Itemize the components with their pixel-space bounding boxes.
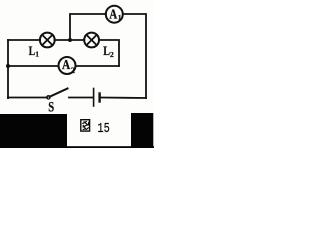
switch S pivot <box>47 96 50 99</box>
lamp L1 <box>40 33 55 48</box>
black band bottom strip <box>0 146 154 148</box>
battery short plate <box>98 94 100 102</box>
svg-text:L: L <box>29 44 36 58</box>
wire left vertical <box>7 40 9 98</box>
svg-text:1: 1 <box>118 13 122 22</box>
label A of ammeter A2 <box>62 57 75 75</box>
battery long plate <box>93 89 95 107</box>
label L1 <box>29 44 40 58</box>
label A of ammeter A1 <box>109 7 121 22</box>
wire middle row left to L1 <box>8 39 40 41</box>
svg-text:2: 2 <box>110 50 114 59</box>
wire junction to L2 <box>70 39 84 41</box>
wire switch to battery <box>69 97 93 99</box>
ammeter A1 <box>106 6 123 23</box>
svg-text:A: A <box>62 57 70 72</box>
wire L1 to junction <box>55 39 70 41</box>
wire battery to right vertical <box>101 97 146 100</box>
svg-text:1: 1 <box>35 49 39 58</box>
black band left block <box>0 114 67 148</box>
lamp L2 <box>84 33 99 48</box>
node junction L1-L2 <box>68 38 72 42</box>
wire A1 to right vertical down to bottom <box>123 14 146 98</box>
svg-text:15: 15 <box>97 122 109 137</box>
wire L2 right then down to A2 row <box>99 40 119 66</box>
svg-text:S: S <box>48 99 54 115</box>
svg-text:2: 2 <box>71 66 75 75</box>
wire A2 to right corner <box>76 65 120 67</box>
label L2 <box>103 44 114 59</box>
node junction left vertical A2 row <box>6 64 10 68</box>
wire junction up to top row <box>70 14 106 40</box>
switch S blade <box>50 89 68 97</box>
ammeter A2 <box>59 57 76 74</box>
caption glyph tu (figure) hand-drawn <box>81 120 90 131</box>
black band right block <box>131 113 153 148</box>
wire A2 row left <box>8 65 59 67</box>
svg-text:A: A <box>109 7 117 22</box>
wire bottom row to switch <box>8 97 47 100</box>
